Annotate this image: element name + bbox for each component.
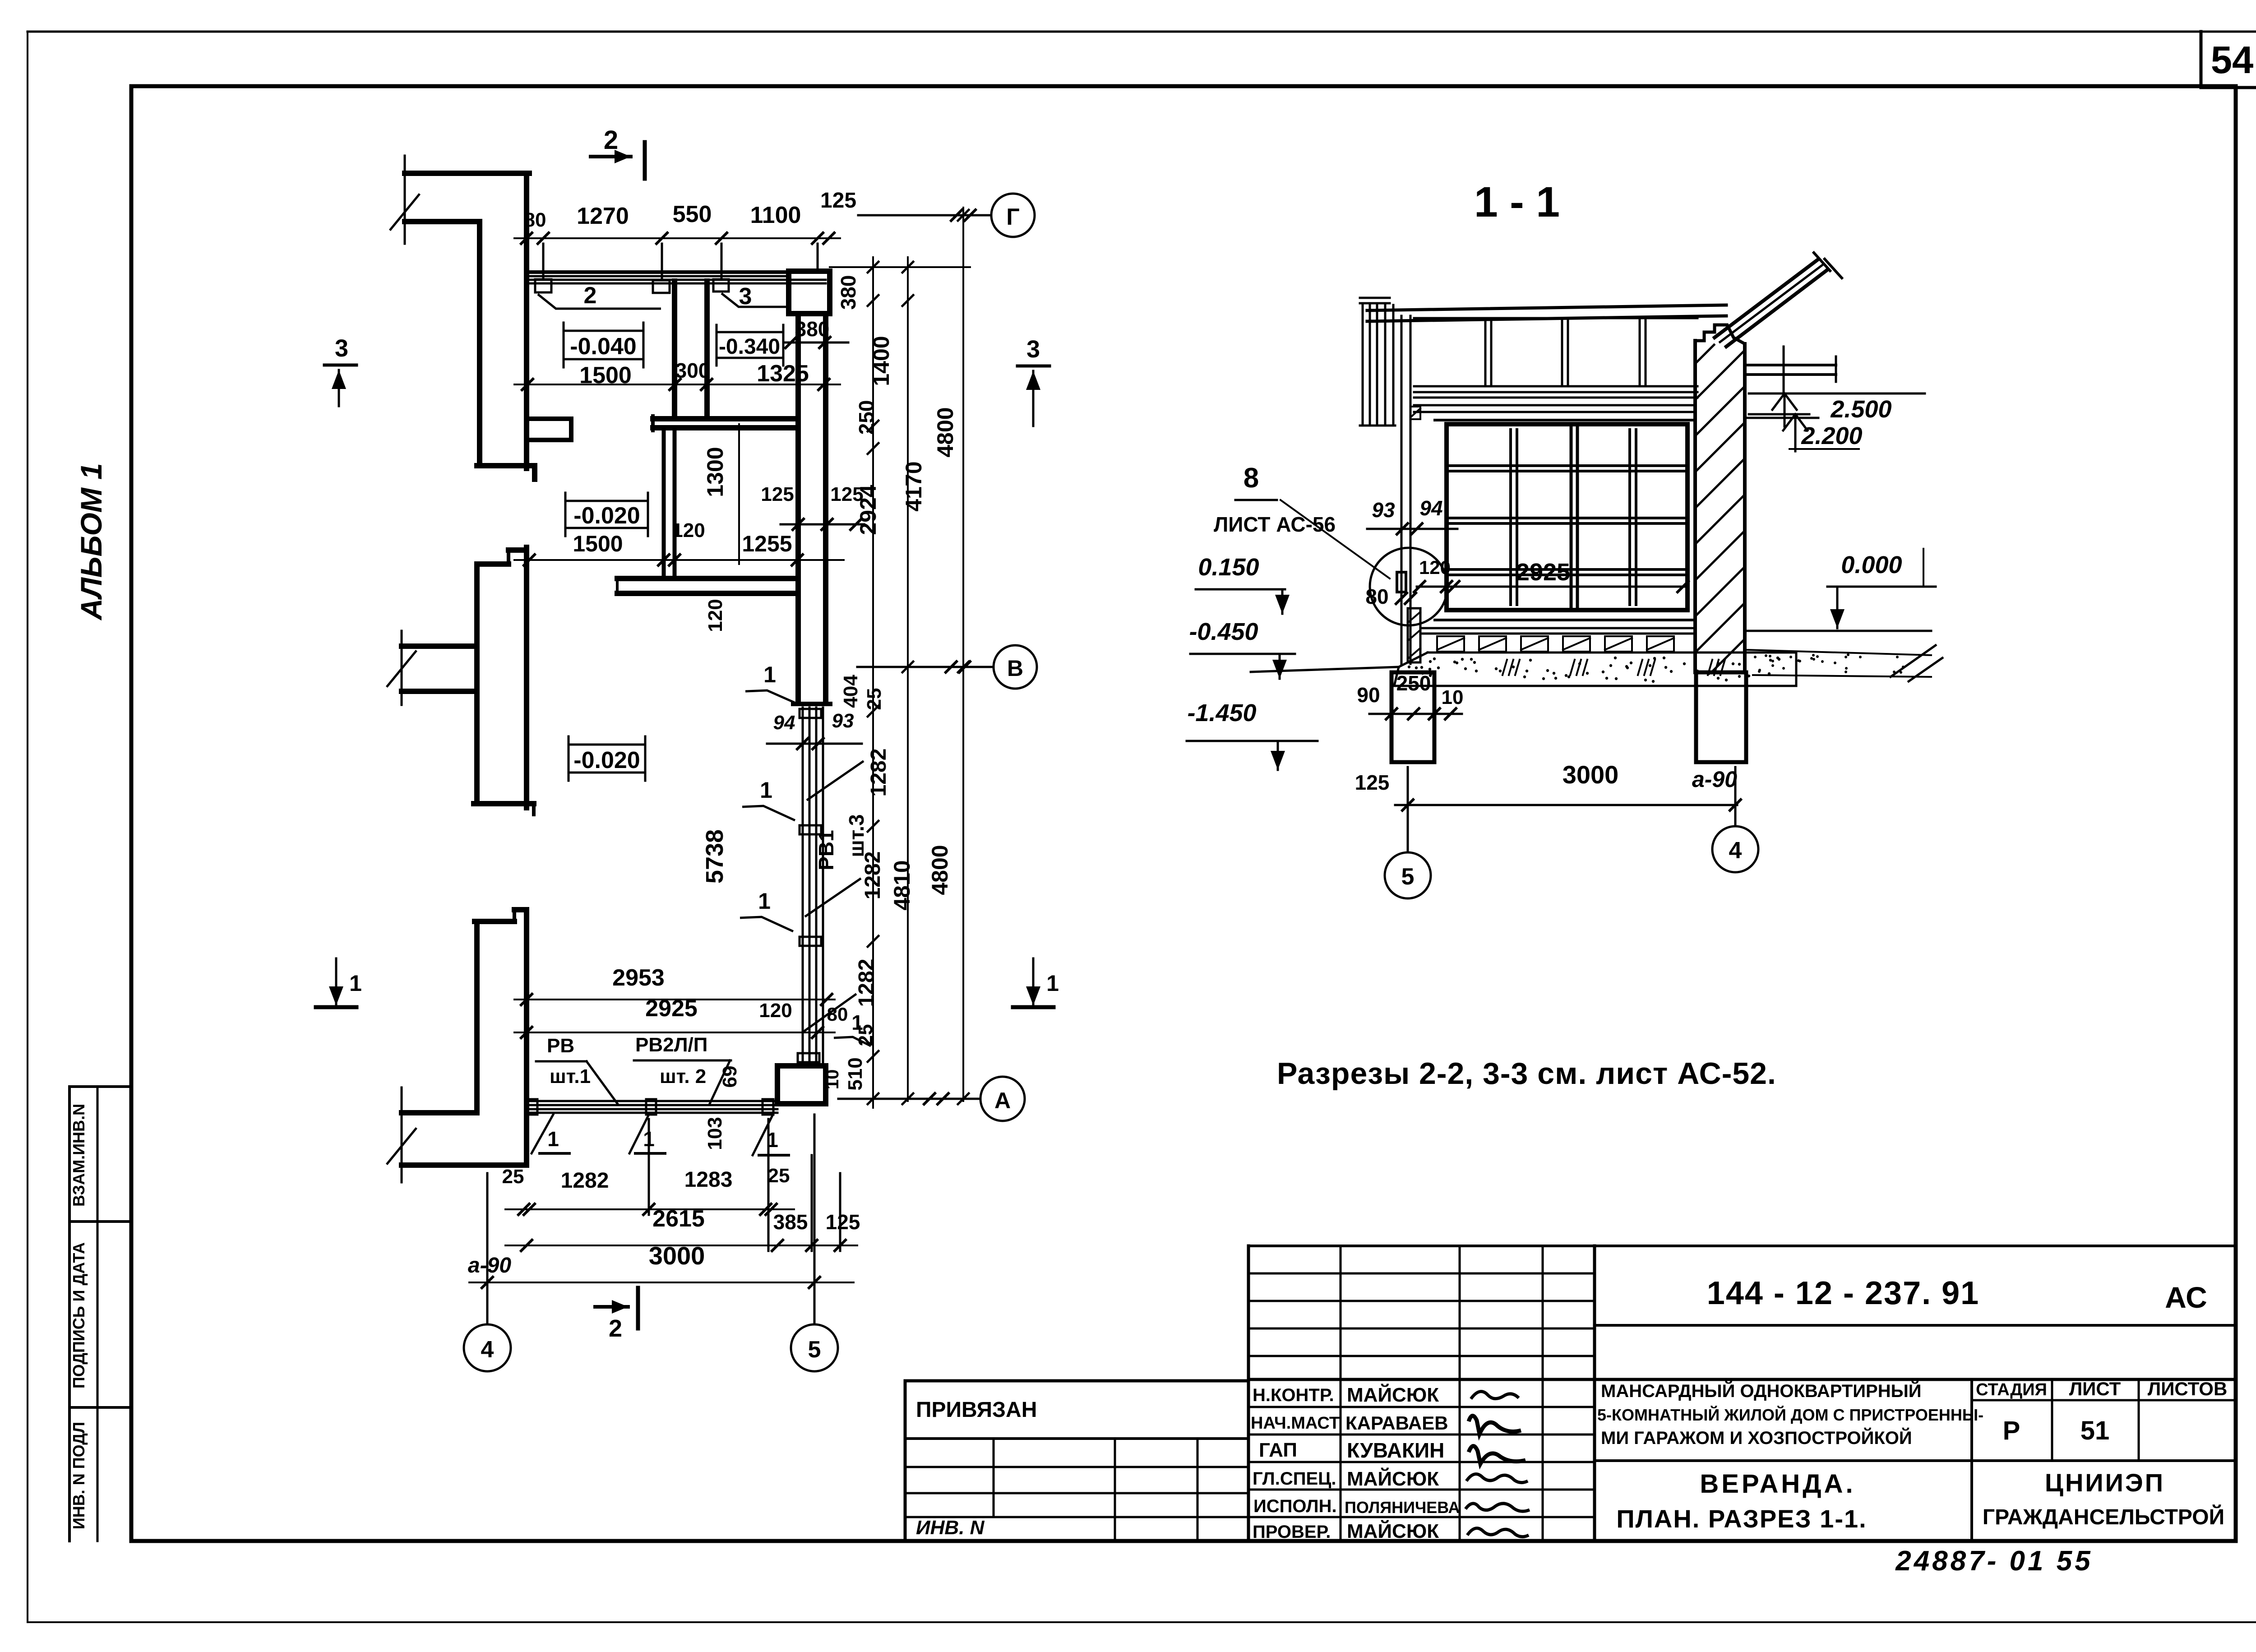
svg-text:4170: 4170 bbox=[901, 461, 926, 511]
axis 5 line bbox=[814, 1115, 816, 1324]
svg-text:2: 2 bbox=[604, 125, 618, 155]
svg-text:80: 80 bbox=[1365, 585, 1388, 608]
svg-text:-0.040: -0.040 bbox=[570, 333, 636, 360]
svg-text:3000: 3000 bbox=[649, 1241, 705, 1270]
axis line A bbox=[838, 1098, 979, 1100]
title block lower-left grid bbox=[905, 1466, 1248, 1468]
sheet number box 54 bbox=[2200, 32, 2203, 88]
wall fragment 1 bottom cap bbox=[477, 463, 535, 468]
svg-text:1400: 1400 bbox=[869, 336, 894, 386]
svg-text:3: 3 bbox=[335, 335, 348, 362]
foundation pier right bbox=[1696, 672, 1746, 762]
detail leader bbox=[1281, 500, 1390, 578]
svg-text:4: 4 bbox=[481, 1337, 494, 1363]
svg-text:144 - 12 - 237. 91: 144 - 12 - 237. 91 bbox=[1707, 1275, 1979, 1311]
window head bbox=[1435, 419, 1695, 421]
title block right part verticals bbox=[1247, 1246, 1250, 1541]
svg-text:380: 380 bbox=[795, 317, 830, 341]
svg-text:Разрезы 2-2, 3-3 см. лист: Разрезы 2-2, 3-3 см. лист АС-52. bbox=[1277, 1056, 1776, 1091]
svg-text:80: 80 bbox=[524, 209, 546, 231]
plan section mark 2 bottom bbox=[595, 1305, 628, 1309]
svg-text:Р: Р bbox=[2003, 1416, 2020, 1445]
left wall lines bbox=[1401, 316, 1403, 664]
floor joists bbox=[1437, 636, 1464, 652]
title block small grid rows bbox=[1248, 1245, 1595, 1247]
wall fragment 3 bbox=[475, 919, 514, 924]
NE corner block bbox=[789, 271, 830, 314]
left wall small hatch top bbox=[1410, 407, 1420, 419]
east window band (axis 5) bbox=[802, 708, 804, 1066]
dim chain 1500-120-1255 bbox=[514, 559, 844, 561]
svg-text:ГРАЖДАНСЕЛЬСТРОЙ: ГРАЖДАНСЕЛЬСТРОЙ bbox=[1983, 1504, 2224, 1529]
svg-text:-0.340: -0.340 bbox=[719, 335, 780, 359]
right vertical chain V2 bbox=[907, 257, 909, 1101]
svg-text:ЛИСТОВ: ЛИСТОВ bbox=[2148, 1378, 2228, 1399]
svg-text:-0.450: -0.450 bbox=[1189, 618, 1258, 645]
south band mullion bbox=[646, 1099, 656, 1115]
section roof slab bbox=[1367, 305, 1726, 310]
svg-text:80: 80 bbox=[827, 1004, 848, 1025]
level mark 2.500 bbox=[1783, 347, 1785, 393]
level box -0.040 bbox=[564, 331, 643, 359]
svg-text:шт. 2: шт. 2 bbox=[660, 1065, 706, 1087]
right ground bbox=[1746, 630, 1931, 632]
svg-text:МАНСАРДНЫЙ ОДНОКВАРТИРНЫЙ: МАНСАРДНЫЙ ОДНОКВАРТИРНЫЙ bbox=[1601, 1380, 1922, 1401]
west wall bottom cap bbox=[793, 702, 830, 706]
detail circle bbox=[1370, 548, 1447, 625]
pier left dims bbox=[1369, 713, 1462, 715]
svg-text:2: 2 bbox=[609, 1315, 622, 1342]
east band mullion 4 bbox=[798, 1053, 819, 1062]
svg-text:10: 10 bbox=[1442, 686, 1464, 708]
right eaves band bbox=[1745, 364, 1836, 366]
wall fragment 3 lower stub bbox=[402, 1110, 477, 1115]
wall fragment 2 bbox=[524, 547, 529, 808]
left wall hatched base strip bbox=[1408, 608, 1420, 662]
svg-text:ПОДПИСЬ И ДАТА: ПОДПИСЬ И ДАТА bbox=[69, 1242, 88, 1388]
svg-text:0.150: 0.150 bbox=[1198, 554, 1259, 581]
svg-text:2953: 2953 bbox=[612, 965, 665, 991]
axis 4 line bbox=[486, 1173, 489, 1324]
title block mid divider bbox=[1248, 1378, 2236, 1381]
detail bracket 80 bbox=[1397, 572, 1406, 592]
svg-text:А: А bbox=[994, 1088, 1011, 1113]
wall fragment 1 break line bbox=[404, 156, 406, 244]
svg-text:4: 4 bbox=[1729, 838, 1742, 864]
svg-text:-1.450: -1.450 bbox=[1187, 699, 1256, 727]
svg-text:10: 10 bbox=[823, 1069, 842, 1090]
svg-text:2925: 2925 bbox=[1516, 559, 1570, 586]
pilaster stub on west wall bbox=[527, 416, 571, 421]
svg-text:125: 125 bbox=[761, 483, 794, 505]
outer thin border bbox=[28, 31, 2256, 33]
window vertical bars bbox=[1509, 430, 1512, 605]
svg-text:25: 25 bbox=[502, 1166, 524, 1188]
svg-text:0.000: 0.000 bbox=[1841, 551, 1902, 578]
foundation pier left bbox=[1392, 672, 1434, 762]
north band sill block 3 bbox=[713, 279, 729, 292]
svg-text:550: 550 bbox=[673, 201, 712, 227]
clerestory mullion 2 bbox=[1561, 320, 1563, 386]
right vertical chain V1 bbox=[872, 257, 874, 1108]
pier hatch lines bbox=[1695, 345, 1714, 364]
wall fragment 1 top edge bbox=[405, 171, 529, 176]
svg-text:90: 90 bbox=[1357, 683, 1380, 707]
svg-text:3: 3 bbox=[1026, 336, 1040, 363]
north band sill block 1 bbox=[535, 279, 551, 292]
svg-text:1: 1 bbox=[763, 662, 776, 687]
svg-text:ГАП: ГАП bbox=[1259, 1439, 1297, 1461]
axis circle 4 bbox=[464, 1324, 511, 1371]
concrete speckles bbox=[1529, 659, 1532, 662]
rafter end break bbox=[1814, 253, 1830, 271]
dim 380 corner block bbox=[783, 342, 848, 344]
svg-text:94: 94 bbox=[1419, 496, 1442, 520]
window leader slants bbox=[808, 762, 863, 800]
svg-text:2925: 2925 bbox=[645, 995, 698, 1022]
svg-text:380: 380 bbox=[837, 275, 860, 310]
svg-text:a-90: a-90 bbox=[468, 1254, 511, 1277]
svg-text:300: 300 bbox=[675, 359, 710, 382]
svg-text:a-90: a-90 bbox=[1692, 767, 1737, 792]
section axis 5 bbox=[1407, 767, 1409, 852]
right lower band bbox=[1745, 417, 1818, 419]
svg-text:ПЛАН. РАЗРЕЗ 1-1.: ПЛАН. РАЗРЕЗ 1-1. bbox=[1616, 1504, 1867, 1533]
svg-text:1282: 1282 bbox=[867, 749, 891, 797]
svg-text:120: 120 bbox=[704, 599, 726, 632]
wall fragment 1 east faces bbox=[477, 222, 482, 466]
svg-text:25: 25 bbox=[768, 1165, 790, 1187]
svg-text:125: 125 bbox=[826, 1210, 860, 1234]
svg-text:Н.КОНТР.: Н.КОНТР. bbox=[1253, 1385, 1334, 1405]
svg-text:25: 25 bbox=[855, 1024, 877, 1046]
svg-text:8: 8 bbox=[1244, 463, 1259, 494]
svg-text:КАРАВАЕВ: КАРАВАЕВ bbox=[1345, 1412, 1448, 1434]
floor deck lines bbox=[1420, 627, 1695, 629]
south band end sills bbox=[527, 1099, 537, 1115]
bottom chain 2 2615 385 125 bbox=[505, 1245, 857, 1246]
svg-text:МАЙСЮК: МАЙСЮК bbox=[1347, 1383, 1439, 1406]
svg-text:24887- 01 55: 24887- 01 55 bbox=[1895, 1546, 2093, 1577]
svg-text:Г: Г bbox=[1006, 204, 1019, 230]
svg-text:404: 404 bbox=[840, 675, 862, 708]
svg-text:5: 5 bbox=[808, 1337, 821, 1363]
window width dim 2925 bbox=[1450, 586, 1687, 588]
svg-text:125: 125 bbox=[1355, 771, 1390, 794]
section mark 1 right bbox=[1032, 958, 1035, 984]
svg-text:120: 120 bbox=[759, 1000, 792, 1022]
vestibule wall band bbox=[617, 576, 798, 581]
svg-text:3000: 3000 bbox=[1563, 760, 1619, 789]
svg-text:ВЗАМ.ИНВ.N: ВЗАМ.ИНВ.N bbox=[69, 1104, 88, 1207]
svg-text:5: 5 bbox=[1401, 864, 1415, 890]
ground line left bbox=[1251, 667, 1399, 672]
svg-text:250: 250 bbox=[1396, 671, 1431, 695]
svg-text:4810: 4810 bbox=[889, 860, 915, 910]
svg-text:шт.3: шт.3 bbox=[845, 814, 868, 857]
svg-text:1: 1 bbox=[760, 777, 772, 803]
veranda west wall upper (axis5 wall) bbox=[795, 316, 801, 702]
title block outline bbox=[904, 1381, 907, 1541]
svg-text:5738: 5738 bbox=[701, 829, 728, 884]
svg-text:125: 125 bbox=[830, 483, 863, 505]
svg-text:1: 1 bbox=[349, 971, 362, 996]
axis circle A bbox=[980, 1077, 1025, 1121]
svg-text:125: 125 bbox=[820, 189, 856, 213]
svg-text:120: 120 bbox=[1419, 557, 1451, 578]
interior wall B bbox=[662, 430, 666, 578]
roof left overhang fascia bbox=[1362, 305, 1364, 426]
svg-text:1: 1 bbox=[1046, 971, 1059, 996]
svg-text:1255: 1255 bbox=[742, 531, 792, 556]
axis line V bbox=[857, 666, 994, 668]
svg-text:1300: 1300 bbox=[703, 447, 728, 497]
svg-text:ПРИВЯЗАН: ПРИВЯЗАН bbox=[916, 1398, 1037, 1422]
svg-text:ИНВ. N ПОДЛ: ИНВ. N ПОДЛ bbox=[69, 1422, 88, 1529]
east band mullion 2 bbox=[800, 825, 821, 834]
left column boxes bbox=[69, 1085, 131, 1088]
svg-text:АС: АС bbox=[2165, 1281, 2207, 1314]
concrete hatch groups bbox=[1502, 660, 1507, 675]
svg-text:1282: 1282 bbox=[861, 851, 885, 900]
right pier hatched bbox=[1693, 341, 1697, 672]
bottom chain 1 1282 1283 bbox=[505, 1208, 794, 1210]
svg-text:93: 93 bbox=[1372, 498, 1395, 522]
section axis 4 bbox=[1734, 767, 1737, 826]
level box -0.020 lower bbox=[569, 745, 645, 773]
svg-text:-0.020: -0.020 bbox=[573, 747, 640, 773]
main window frame bbox=[1447, 424, 1687, 610]
svg-text:1 - 1: 1 - 1 bbox=[1474, 178, 1560, 226]
svg-text:РВ: РВ bbox=[547, 1035, 574, 1057]
svg-text:93: 93 bbox=[832, 710, 854, 732]
east band mullion 1 bbox=[800, 709, 821, 718]
window horizontal bars bbox=[1450, 464, 1684, 467]
svg-text:РВ1: РВ1 bbox=[814, 830, 838, 870]
svg-text:ЦНИИЭП: ЦНИИЭП bbox=[2045, 1468, 2165, 1497]
svg-text:3: 3 bbox=[739, 283, 752, 310]
svg-text:1: 1 bbox=[758, 888, 771, 914]
section mark 1 left bbox=[335, 958, 337, 984]
svg-text:НАЧ.МАСТ: НАЧ.МАСТ bbox=[1251, 1414, 1340, 1433]
svg-text:1: 1 bbox=[547, 1127, 559, 1151]
rafter sloped beam bbox=[1715, 260, 1817, 338]
sheet title divider bbox=[1595, 1459, 2236, 1462]
svg-text:1500: 1500 bbox=[573, 531, 623, 556]
svg-text:МАЙСЮК: МАЙСЮК bbox=[1347, 1519, 1439, 1542]
dim 125 125 wall bbox=[781, 523, 864, 526]
level box -0.020 upper bbox=[565, 501, 648, 528]
right ground slash bbox=[1891, 645, 1936, 677]
window sill band bbox=[1435, 619, 1695, 621]
svg-text:В: В bbox=[1007, 656, 1023, 681]
svg-text:25: 25 bbox=[863, 688, 885, 710]
svg-text:ПРОВЕР.: ПРОВЕР. bbox=[1253, 1522, 1331, 1542]
svg-text:-0.020: -0.020 bbox=[573, 503, 640, 529]
svg-text:ЛИСТ АС-56: ЛИСТ АС-56 bbox=[1214, 513, 1336, 536]
svg-text:1325: 1325 bbox=[757, 361, 809, 387]
svg-text:4800: 4800 bbox=[927, 845, 952, 895]
svg-text:385: 385 bbox=[773, 1210, 808, 1234]
svg-text:ИНВ. N: ИНВ. N bbox=[916, 1517, 985, 1539]
svg-text:4800: 4800 bbox=[933, 407, 958, 457]
svg-text:1282: 1282 bbox=[561, 1169, 609, 1193]
axis circle V bbox=[994, 645, 1037, 689]
east band mullion 3 bbox=[800, 937, 821, 946]
svg-text:ИСПОЛН.: ИСПОЛН. bbox=[1253, 1496, 1337, 1516]
svg-text:ПОЛЯНИЧЕВА: ПОЛЯНИЧЕВА bbox=[1345, 1498, 1460, 1517]
svg-text:2.500: 2.500 bbox=[1830, 396, 1891, 423]
cell 144-12-237.91 bbox=[1595, 1324, 2236, 1327]
svg-text:250: 250 bbox=[855, 400, 878, 435]
veranda north window band bbox=[529, 270, 789, 274]
svg-text:54: 54 bbox=[2211, 39, 2254, 82]
wall fragment 1 inner edge bbox=[405, 219, 480, 224]
svg-text:51: 51 bbox=[2080, 1416, 2110, 1445]
clerestory band bbox=[1414, 317, 1697, 319]
svg-text:КУВАКИН: КУВАКИН bbox=[1347, 1439, 1444, 1462]
svg-text:1282: 1282 bbox=[855, 959, 878, 1007]
middle dimension chain 1500-300-1325 bbox=[514, 384, 840, 385]
svg-text:510: 510 bbox=[844, 1057, 866, 1090]
level box -0.340 bbox=[717, 332, 783, 358]
svg-text:2615: 2615 bbox=[652, 1206, 705, 1232]
chain top connector bbox=[830, 266, 970, 268]
level mark 2.200 bbox=[1749, 413, 1809, 416]
axis circle G bbox=[991, 194, 1035, 237]
interior wall stub (cut) bbox=[402, 643, 477, 649]
svg-text:69: 69 bbox=[719, 1066, 741, 1088]
svg-text:1283: 1283 bbox=[684, 1168, 733, 1192]
svg-text:АЛЬБОМ 1: АЛЬБОМ 1 bbox=[74, 463, 108, 621]
svg-text:ГЛ.СПЕЦ.: ГЛ.СПЕЦ. bbox=[1253, 1469, 1336, 1489]
svg-text:РВ2Л/П: РВ2Л/П bbox=[635, 1034, 707, 1056]
svg-text:120: 120 bbox=[672, 519, 705, 541]
axis line G bbox=[858, 214, 991, 217]
svg-text:СТАДИЯ: СТАДИЯ bbox=[1976, 1380, 2047, 1399]
svg-text:1270: 1270 bbox=[577, 203, 629, 229]
head beam band bbox=[1414, 404, 1695, 407]
bottom chain 3 3000 bbox=[469, 1282, 854, 1283]
section bottom dim 3000 bbox=[1395, 804, 1737, 806]
stage grid bbox=[1970, 1379, 1973, 1461]
svg-text:ВЕРАНДА.: ВЕРАНДА. bbox=[1700, 1469, 1855, 1499]
interior wall A bbox=[653, 416, 798, 421]
svg-text:МАЙСЮК: МАЙСЮК bbox=[1347, 1467, 1439, 1490]
svg-text:94: 94 bbox=[773, 712, 795, 734]
name rows bbox=[1248, 1406, 1595, 1408]
partition wall 300 bbox=[672, 281, 677, 416]
svg-text:шт.1: шт.1 bbox=[550, 1065, 591, 1087]
north band sill block 2 bbox=[653, 280, 670, 293]
axis circle 5 bbox=[791, 1324, 838, 1371]
svg-text:1100: 1100 bbox=[750, 202, 801, 228]
title block big cell top bbox=[1595, 1245, 2236, 1247]
dim 2953 bbox=[514, 999, 835, 1000]
dim 2925 bbox=[514, 1032, 835, 1033]
wall fragment 2 bottom cap bbox=[474, 801, 534, 806]
svg-text:МИ ГАРАЖОМ И ХОЗПОСТРОЙКОЙ: МИ ГАРАЖОМ И ХОЗПОСТРОЙКОЙ bbox=[1601, 1427, 1912, 1448]
svg-text:103: 103 bbox=[704, 1117, 726, 1150]
SE corner post bbox=[777, 1066, 826, 1104]
veranda south window band bbox=[527, 1100, 777, 1102]
svg-text:ЛИСТ: ЛИСТ bbox=[2069, 1378, 2121, 1399]
svg-text:2: 2 bbox=[584, 282, 597, 309]
clerestory mullion 3 bbox=[1639, 320, 1641, 386]
svg-text:1500: 1500 bbox=[579, 362, 632, 389]
svg-text:5-КОМНАТНЫЙ ЖИЛОЙ ДОМ С ПРИСТР: 5-КОМНАТНЫЙ ЖИЛОЙ ДОМ С ПРИСТРОЕННЫ- bbox=[1597, 1405, 1983, 1424]
right vertical chain V3 bbox=[962, 208, 964, 1101]
top dimension chain bbox=[514, 237, 840, 239]
clerestory mullion 1 bbox=[1484, 320, 1487, 386]
dim extension 1300 bbox=[738, 424, 740, 564]
signatures bbox=[1471, 1392, 1519, 1399]
svg-text:2.200: 2.200 bbox=[1801, 422, 1862, 449]
concrete base slab bbox=[1428, 652, 1796, 654]
